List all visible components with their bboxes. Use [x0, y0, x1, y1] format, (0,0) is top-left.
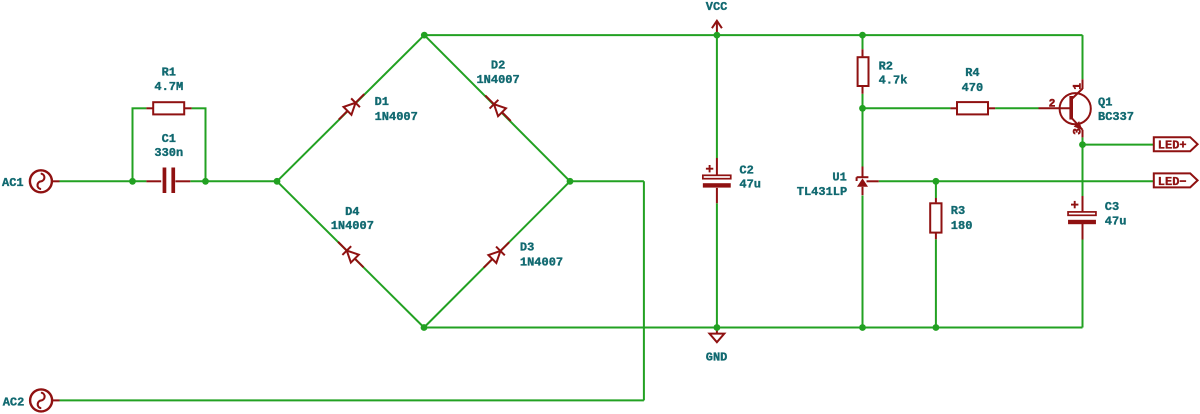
svg-text:R1: R1: [162, 65, 176, 79]
svg-text:Q1: Q1: [1098, 96, 1112, 110]
svg-text:4.7k: 4.7k: [879, 74, 908, 88]
svg-text:3: 3: [1073, 128, 1085, 135]
svg-text:47u: 47u: [1105, 215, 1127, 229]
svg-text:AC1: AC1: [2, 176, 24, 190]
svg-text:47u: 47u: [739, 178, 761, 192]
svg-text:180: 180: [951, 219, 973, 233]
svg-text:LED+: LED+: [1158, 139, 1187, 153]
svg-text:VCC: VCC: [706, 0, 728, 14]
svg-text:R2: R2: [879, 59, 893, 73]
svg-text:LED−: LED−: [1158, 175, 1187, 189]
svg-text:2: 2: [1049, 99, 1056, 111]
svg-text:C3: C3: [1105, 200, 1119, 214]
svg-text:D4: D4: [345, 205, 359, 219]
svg-text:1N4007: 1N4007: [476, 73, 519, 87]
svg-text:R3: R3: [951, 204, 965, 218]
svg-text:1N4007: 1N4007: [375, 110, 418, 124]
svg-text:1: 1: [1073, 83, 1085, 90]
svg-text:D3: D3: [520, 240, 534, 254]
svg-text:C2: C2: [739, 163, 753, 177]
svg-text:BC337: BC337: [1098, 110, 1134, 124]
svg-text:TL431LP: TL431LP: [797, 185, 847, 199]
svg-text:D2: D2: [491, 58, 505, 72]
svg-text:470: 470: [962, 81, 984, 95]
svg-text:GND: GND: [706, 351, 728, 365]
svg-text:AC2: AC2: [3, 395, 25, 409]
svg-text:D1: D1: [375, 95, 389, 109]
svg-text:330n: 330n: [154, 146, 183, 160]
svg-text:1N4007: 1N4007: [331, 219, 374, 233]
svg-text:C1: C1: [162, 132, 176, 146]
svg-text:R4: R4: [965, 66, 979, 80]
svg-text:4.7M: 4.7M: [154, 80, 183, 94]
svg-text:1N4007: 1N4007: [520, 255, 563, 269]
svg-text:U1: U1: [832, 170, 846, 184]
